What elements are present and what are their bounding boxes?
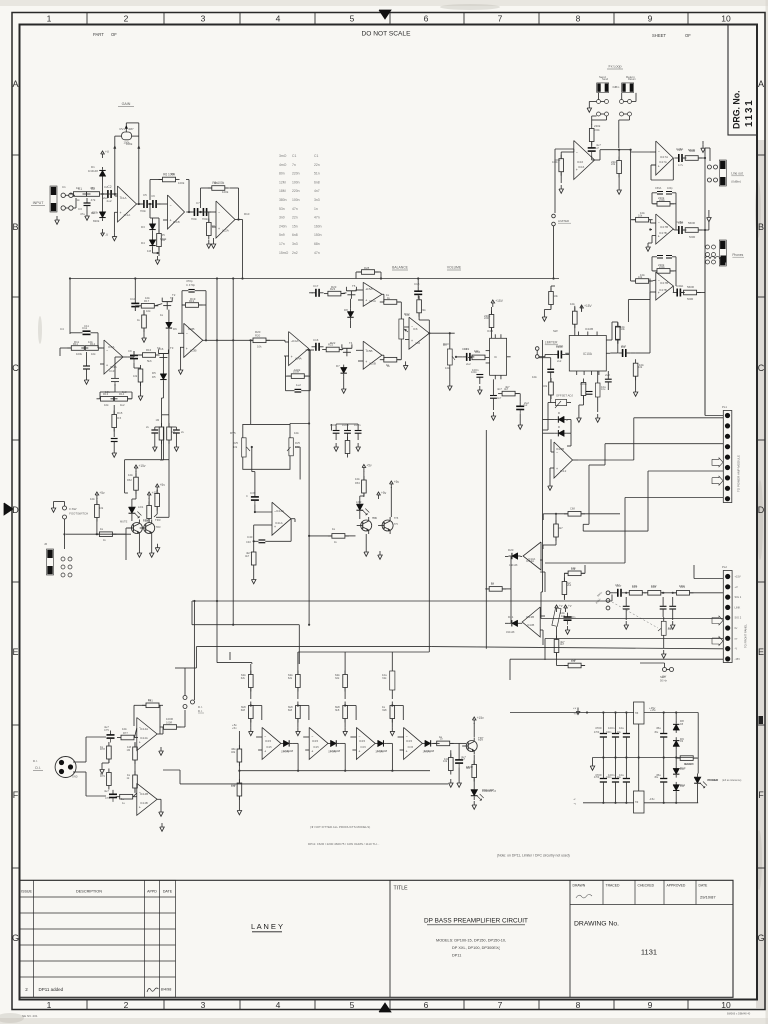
svg-text:IC15: IC15 bbox=[406, 739, 412, 743]
wire bbox=[661, 592, 676, 594]
svg-text:MODELS: DP100-15, DP150, DP: MODELS: DP100-15, DP150, DP150-10, bbox=[436, 939, 506, 943]
wire bbox=[618, 150, 620, 161]
wire bbox=[289, 423, 291, 426]
wire bbox=[295, 446, 300, 448]
power +5v bbox=[155, 483, 165, 491]
svg-text:10k: 10k bbox=[620, 325, 625, 329]
svg-text:R19: R19 bbox=[190, 297, 196, 301]
svg-text:LINK: LINK bbox=[735, 605, 741, 609]
resistor bbox=[249, 702, 254, 723]
svg-text:50 Hz: 50 Hz bbox=[660, 679, 667, 683]
svg-text:9: 9 bbox=[648, 14, 653, 24]
svg-text:IC6: IC6 bbox=[415, 341, 420, 345]
wire bbox=[434, 742, 436, 744]
diode bbox=[509, 553, 521, 559]
svg-text:100k: 100k bbox=[222, 190, 229, 194]
svg-text:62k: 62k bbox=[241, 673, 246, 677]
ground bbox=[341, 385, 346, 393]
wire bbox=[536, 350, 538, 354]
wire bbox=[133, 363, 135, 368]
svg-text:7n: 7n bbox=[292, 163, 296, 167]
svg-text:SHEET: SHEET bbox=[652, 33, 666, 38]
switch contact bbox=[597, 100, 601, 104]
svg-text:1u: 1u bbox=[121, 797, 125, 801]
svg-text:C: C bbox=[12, 363, 19, 373]
arrow symbol bbox=[712, 476, 723, 485]
wire DI up bbox=[193, 601, 195, 700]
op-amp bbox=[523, 542, 541, 570]
capacitor bbox=[312, 289, 324, 297]
wire bbox=[69, 279, 71, 335]
drawn traced checked row bbox=[570, 880, 733, 904]
wire bbox=[336, 423, 358, 425]
svg-text:IC17A: IC17A bbox=[660, 155, 668, 159]
ground bbox=[633, 388, 638, 396]
svg-text:DP BASS PREAMPLIFIER CIRCUIT: DP BASS PREAMPLIFIER CIRCUIT bbox=[424, 918, 528, 925]
capacitor bbox=[111, 374, 119, 386]
svg-text:+: + bbox=[139, 740, 141, 744]
svg-text:10k: 10k bbox=[444, 757, 449, 761]
svg-text:820k: 820k bbox=[160, 237, 167, 241]
wire bbox=[638, 724, 640, 758]
capacitor C11 bbox=[83, 330, 91, 332]
wire bbox=[382, 293, 384, 295]
svg-text:BALANCE: BALANCE bbox=[392, 266, 409, 270]
svg-text:R20: R20 bbox=[255, 330, 261, 334]
transistor bbox=[378, 517, 393, 534]
svg-text:IC13B: IC13B bbox=[526, 615, 534, 619]
switch contact bbox=[68, 573, 72, 577]
svg-text:C6: C6 bbox=[151, 194, 155, 198]
op-amp bbox=[137, 718, 157, 751]
resistor bbox=[142, 311, 147, 332]
svg-text:C67: C67 bbox=[616, 584, 622, 588]
svg-text:IC1A: IC1A bbox=[124, 213, 131, 217]
svg-text:+: + bbox=[274, 525, 276, 529]
wire vertical x217 bbox=[216, 279, 218, 663]
wire bbox=[99, 347, 104, 349]
wire bbox=[591, 142, 593, 144]
diode bbox=[99, 167, 105, 179]
svg-text:R16: R16 bbox=[146, 348, 152, 352]
svg-text:220k: 220k bbox=[484, 314, 491, 318]
svg-text:G: G bbox=[12, 933, 19, 943]
wire bbox=[135, 728, 137, 738]
wire bbox=[280, 742, 282, 744]
svg-text:C7: C7 bbox=[196, 201, 200, 205]
ground bbox=[707, 214, 712, 222]
wire bbox=[601, 101, 605, 103]
svg-text:Phones: Phones bbox=[732, 253, 743, 257]
capacitor C14 feedback pair bbox=[188, 289, 194, 291]
resistor bbox=[617, 157, 622, 178]
wire bbox=[544, 355, 546, 357]
svg-text:IC17B: IC17B bbox=[659, 288, 667, 292]
capacitor C50 pair bbox=[111, 438, 118, 440]
svg-text:7: 7 bbox=[498, 1000, 503, 1010]
svg-text:-V: -V bbox=[735, 647, 738, 651]
svg-text:3: 3 bbox=[201, 14, 206, 24]
svg-text:12M: 12M bbox=[279, 180, 286, 184]
wire long vertical bbox=[428, 333, 430, 650]
wire feedback IC3B bbox=[181, 291, 183, 334]
svg-text:G: G bbox=[757, 933, 764, 943]
wire vertical x542 bbox=[542, 340, 544, 560]
svg-text:C5: C5 bbox=[143, 193, 147, 197]
svg-text:3n3: 3n3 bbox=[292, 242, 298, 246]
svg-text:D5: D5 bbox=[152, 375, 156, 379]
wire IC6 out bbox=[429, 332, 454, 334]
svg-text:3n3: 3n3 bbox=[314, 198, 320, 202]
svg-text:TO POWER AMP MODULE: TO POWER AMP MODULE bbox=[737, 455, 741, 492]
svg-text:Return: Return bbox=[626, 75, 635, 79]
resistor bbox=[133, 771, 138, 792]
svg-text:47n: 47n bbox=[314, 251, 320, 255]
capacitor C32 pair feedback bbox=[657, 255, 663, 257]
resistor bbox=[182, 303, 203, 308]
svg-text:IC10A: IC10A bbox=[583, 352, 593, 356]
svg-text:4u7: 4u7 bbox=[596, 143, 601, 147]
capacitor bbox=[674, 154, 686, 162]
wire bbox=[516, 393, 521, 395]
master volume dual pot box bbox=[243, 424, 290, 437]
svg-text:FOOTSWITCH: FOOTSWITCH bbox=[69, 512, 88, 516]
wire bbox=[255, 511, 272, 513]
svg-text:PART: PART bbox=[93, 32, 104, 37]
svg-text:10k: 10k bbox=[554, 294, 559, 298]
ground bbox=[457, 779, 462, 787]
feedback loop IC17A bbox=[651, 164, 656, 166]
svg-text:J6: J6 bbox=[44, 542, 47, 546]
svg-text:+5v: +5v bbox=[366, 464, 372, 468]
ground bbox=[577, 414, 582, 422]
svg-text:+: + bbox=[365, 360, 367, 364]
wire bus y646 bbox=[196, 646, 431, 648]
svg-text:4.7u: 4.7u bbox=[678, 163, 684, 167]
wire bbox=[309, 350, 311, 376]
ground bbox=[624, 621, 629, 629]
svg-text:D21: D21 bbox=[508, 615, 514, 619]
capacitor bbox=[554, 351, 566, 359]
svg-text:D10: D10 bbox=[680, 766, 686, 770]
wire bbox=[449, 372, 451, 382]
capacitor C3 to ground bbox=[86, 198, 88, 203]
switch contact bbox=[61, 565, 65, 569]
resistor R2 bbox=[83, 187, 104, 196]
svg-text:+5v: +5v bbox=[232, 723, 237, 727]
svg-text:+: + bbox=[311, 749, 313, 753]
svg-text:C1: C1 bbox=[314, 154, 318, 158]
svg-text:1u2: 1u2 bbox=[296, 383, 301, 387]
svg-text:IC15: IC15 bbox=[265, 739, 271, 743]
svg-text:10k: 10k bbox=[91, 352, 96, 356]
ground bbox=[85, 212, 90, 220]
wire bbox=[152, 233, 154, 237]
switch contact bbox=[61, 206, 65, 210]
svg-text:+5v: +5v bbox=[381, 491, 387, 495]
svg-text:10k: 10k bbox=[146, 309, 151, 313]
svg-text:22k: 22k bbox=[421, 308, 426, 312]
svg-text:4mO: 4mO bbox=[279, 163, 287, 167]
title box divider bbox=[389, 880, 391, 997]
svg-text:C28A: C28A bbox=[676, 220, 683, 224]
capacitor bbox=[149, 200, 161, 208]
switch contact bbox=[605, 100, 609, 104]
resistor R1 bbox=[70, 187, 91, 196]
diode bbox=[281, 740, 293, 746]
wire bbox=[630, 352, 635, 354]
LED bbox=[471, 786, 484, 801]
resistor bbox=[296, 671, 301, 692]
diode bbox=[149, 237, 155, 249]
svg-text:10k: 10k bbox=[532, 375, 537, 379]
resistor bbox=[564, 512, 585, 517]
svg-text:CHECKED: CHECKED bbox=[638, 884, 655, 888]
svg-text:100n: 100n bbox=[570, 616, 576, 619]
resistor R9 100k bbox=[208, 181, 229, 190]
svg-text:DRAWN: DRAWN bbox=[573, 884, 586, 888]
capacitor PSU 10u upper bbox=[623, 733, 630, 735]
FET bbox=[342, 344, 352, 356]
svg-text:OF: OF bbox=[685, 33, 691, 38]
resistor bbox=[449, 754, 454, 775]
capacitor bbox=[564, 613, 572, 625]
resistor bbox=[343, 671, 348, 692]
capacitor bbox=[588, 144, 596, 156]
svg-text:100n: 100n bbox=[330, 423, 337, 427]
wire bbox=[297, 652, 299, 664]
svg-text:F: F bbox=[758, 790, 764, 800]
wire bbox=[704, 230, 706, 247]
capacitor bbox=[251, 493, 259, 505]
svg-text:C13: C13 bbox=[109, 369, 115, 373]
svg-text:2u2: 2u2 bbox=[524, 401, 529, 405]
svg-text:TR7: TR7 bbox=[478, 736, 484, 740]
svg-text:4u7: 4u7 bbox=[461, 755, 466, 759]
power +15v bbox=[134, 464, 146, 472]
svg-text:560R: 560R bbox=[689, 235, 695, 239]
svg-text:1N4148: 1N4148 bbox=[283, 749, 294, 753]
svg-text:IC10: IC10 bbox=[487, 329, 493, 333]
resistor bbox=[328, 534, 349, 539]
svg-text:10k: 10k bbox=[668, 626, 673, 630]
capacitor C52 pair bbox=[173, 429, 180, 431]
svg-text:4u7: 4u7 bbox=[104, 725, 109, 729]
ground bbox=[174, 443, 179, 451]
svg-text:6k8: 6k8 bbox=[241, 705, 246, 709]
arrow symbol bbox=[712, 616, 723, 625]
wire 0V rail bbox=[593, 757, 693, 759]
svg-text:IC4A: IC4A bbox=[295, 357, 302, 361]
capacitor PSU 4700u lower bbox=[600, 778, 607, 780]
svg-text:B: B bbox=[758, 222, 764, 232]
op-amp bbox=[656, 214, 674, 244]
svg-text:100n: 100n bbox=[342, 423, 349, 427]
svg-text:1131: 1131 bbox=[641, 948, 657, 957]
op-amp bbox=[262, 727, 281, 759]
resistor bbox=[147, 502, 152, 523]
op-amp bbox=[574, 141, 595, 180]
svg-text:IC1B: IC1B bbox=[173, 220, 180, 224]
svg-text:IC15: IC15 bbox=[360, 745, 366, 749]
ground bbox=[356, 443, 361, 451]
svg-text:160n: 160n bbox=[314, 224, 322, 228]
connector PL1 to power amp bbox=[723, 411, 732, 503]
IC bbox=[486, 334, 511, 379]
wire bbox=[650, 222, 656, 224]
svg-text:10k: 10k bbox=[355, 477, 360, 481]
wire bbox=[135, 471, 137, 477]
svg-text:10k: 10k bbox=[105, 390, 110, 394]
diode bbox=[422, 740, 434, 746]
op-amp bbox=[309, 727, 328, 759]
svg-text:+: + bbox=[170, 219, 172, 223]
ground bbox=[155, 256, 160, 264]
svg-text:10k: 10k bbox=[639, 363, 644, 367]
svg-text:F.SW: F.SW bbox=[69, 507, 76, 511]
resistor bbox=[489, 311, 494, 332]
svg-text:1M: 1M bbox=[156, 418, 160, 422]
svg-text:2u2: 2u2 bbox=[605, 373, 610, 377]
transformer T1 bbox=[705, 257, 710, 260]
svg-text:100k: 100k bbox=[76, 352, 83, 356]
wire bbox=[541, 591, 543, 593]
power +5v bbox=[362, 464, 372, 472]
capacitor C22 bbox=[490, 395, 497, 397]
svg-text:100n: 100n bbox=[608, 773, 615, 777]
svg-text:C11: C11 bbox=[82, 326, 87, 330]
svg-text:100n: 100n bbox=[606, 731, 612, 734]
svg-text:100n: 100n bbox=[354, 423, 361, 427]
wire bbox=[397, 301, 401, 303]
svg-text:4700: 4700 bbox=[594, 731, 600, 734]
svg-text:560R: 560R bbox=[688, 221, 695, 225]
svg-text:IC14B: IC14B bbox=[140, 801, 148, 805]
wire vertical x486 bbox=[485, 430, 487, 592]
svg-text:C1: C1 bbox=[292, 154, 296, 158]
svg-text:PL1: PL1 bbox=[722, 405, 727, 409]
resistor bbox=[433, 741, 454, 746]
switch contact bbox=[712, 260, 716, 264]
svg-text:+15v: +15v bbox=[477, 716, 484, 720]
wire bbox=[455, 356, 462, 358]
svg-text:47n: 47n bbox=[314, 216, 320, 220]
svg-text:700n: 700n bbox=[202, 217, 209, 221]
svg-text:100n: 100n bbox=[608, 726, 615, 730]
wire bbox=[344, 652, 346, 664]
wire bbox=[250, 663, 252, 665]
wire bbox=[113, 533, 126, 535]
svg-text:+5v: +5v bbox=[394, 480, 400, 484]
svg-text:C3: C3 bbox=[78, 207, 82, 211]
wire bbox=[306, 597, 308, 599]
svg-text:IC15: IC15 bbox=[359, 739, 365, 743]
ground bbox=[390, 727, 395, 735]
capacitor PSU 10u lower bbox=[623, 778, 630, 780]
svg-text:C9: C9 bbox=[128, 349, 132, 353]
svg-text:5n9: 5n9 bbox=[279, 233, 285, 237]
svg-text:C68: C68 bbox=[570, 507, 575, 511]
wire bbox=[199, 211, 201, 213]
switch contact bbox=[706, 260, 710, 264]
capacitor bbox=[130, 351, 138, 363]
svg-text:4M7: 4M7 bbox=[128, 127, 134, 131]
centering mark top bbox=[379, 10, 391, 19]
resistor bbox=[81, 346, 102, 351]
switch contact bbox=[714, 165, 718, 169]
svg-text:10k: 10k bbox=[122, 727, 127, 731]
svg-text:0dBm: 0dBm bbox=[613, 85, 620, 89]
svg-text:IC15: IC15 bbox=[313, 745, 319, 749]
wire bbox=[667, 669, 670, 671]
wire bbox=[356, 289, 364, 291]
resistor bbox=[157, 230, 162, 251]
ground bbox=[559, 185, 564, 193]
svg-text:IC16: IC16 bbox=[578, 165, 585, 169]
op-amp bbox=[356, 727, 375, 759]
svg-text:R77: R77 bbox=[123, 731, 128, 735]
svg-text:+v: +v bbox=[568, 604, 572, 608]
wire bbox=[238, 731, 240, 749]
ground bbox=[542, 313, 547, 321]
svg-text:18M: 18M bbox=[279, 189, 286, 193]
svg-text:4: 4 bbox=[276, 1000, 281, 1010]
svg-text:C 470p: C 470p bbox=[186, 283, 195, 287]
svg-text:IC10B: IC10B bbox=[585, 327, 593, 331]
wire bbox=[391, 652, 393, 664]
svg-text:47k: 47k bbox=[90, 186, 95, 190]
svg-text:TO FRONT PANEL: TO FRONT PANEL bbox=[744, 624, 748, 648]
wires into PL2 bbox=[694, 578, 723, 580]
svg-text:680R: 680R bbox=[466, 765, 473, 769]
capacitor C66 bbox=[547, 368, 554, 370]
wire bbox=[102, 179, 104, 194]
LED bbox=[129, 504, 142, 519]
top ruler ticks bbox=[87, 13, 688, 25]
wire bbox=[555, 514, 557, 524]
wire vertical x309 bbox=[308, 350, 310, 625]
svg-text:6k8: 6k8 bbox=[335, 705, 340, 709]
power +15V bbox=[580, 304, 593, 312]
svg-text:IC12: IC12 bbox=[560, 469, 567, 473]
jack bbox=[719, 240, 726, 266]
resistor bbox=[380, 357, 401, 362]
wire bbox=[254, 472, 256, 493]
wire y662 bbox=[217, 662, 252, 664]
wire bbox=[560, 152, 562, 159]
svg-text:D.I.: D.I. bbox=[33, 759, 38, 763]
svg-text:+v: +v bbox=[573, 706, 577, 710]
wire bus y624 bbox=[192, 624, 299, 626]
wire bbox=[375, 271, 381, 273]
diode bbox=[166, 320, 172, 332]
ground bbox=[587, 104, 592, 112]
svg-text:220k: 220k bbox=[658, 263, 665, 267]
wire bbox=[330, 424, 332, 431]
svg-text:53n: 53n bbox=[279, 207, 285, 211]
svg-text:IC11A: IC11A bbox=[276, 509, 284, 513]
capacitor C51 pair bbox=[151, 429, 158, 431]
svg-text:1k2: 1k2 bbox=[120, 403, 125, 407]
ground bbox=[296, 727, 301, 735]
svg-text:E: E bbox=[758, 647, 764, 657]
svg-text:51n: 51n bbox=[314, 172, 320, 176]
switch contact bbox=[712, 253, 716, 257]
wire gate drive bbox=[161, 441, 163, 460]
LED bbox=[356, 501, 369, 516]
LED bbox=[694, 774, 707, 789]
switch contact bbox=[552, 222, 556, 226]
